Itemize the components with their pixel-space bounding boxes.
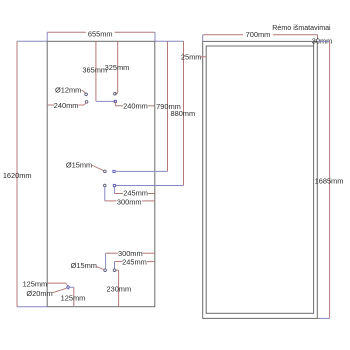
svg-text:245mm: 245mm [123, 189, 148, 198]
wire: extension line bottom-left (door bottom to 1620 dim) [17, 306, 47, 308]
hole top-left [85, 93, 88, 96]
svg-text:Ø15mm: Ø15mm [66, 161, 92, 170]
svg-text:655mm: 655mm [88, 29, 113, 38]
hole mid-right [114, 100, 116, 102]
wire: ext 300 lower to hole [105, 253, 107, 269]
wire: ext from 365 dim to hole [96, 100, 115, 102]
wire: ext frame top right to 1685 dim [317, 40, 329, 42]
hole row3 right [113, 269, 116, 272]
dimension 240mm left [47, 104, 54, 106]
svg-text:365mm: 365mm [82, 66, 107, 75]
dimension 125mm top (from left edge to Ø20 hole) [47, 282, 66, 284]
frame inner-right stub [313, 41, 315, 46]
svg-text:Ø15mm: Ø15mm [71, 261, 97, 270]
svg-text:1620mm: 1620mm [3, 171, 32, 180]
svg-text:300mm: 300mm [117, 198, 142, 207]
svg-text:245mm: 245mm [122, 257, 147, 266]
hole top-right [114, 92, 117, 95]
svg-text:700mm: 700mm [246, 30, 271, 39]
svg-text:Ø20mm: Ø20mm [26, 289, 52, 298]
tick right 655 [154, 32, 156, 41]
svg-text:240mm: 240mm [123, 102, 148, 111]
dimension 365mm vertical [95, 41, 97, 101]
wire: ext 245 lower to hole [114, 262, 116, 269]
wire: ext row2 to 880 dim [116, 185, 184, 187]
leader Ø15mm upper [91, 165, 104, 171]
tick left 700 [202, 35, 204, 42]
dimension 1620mm vertical line [16, 41, 18, 306]
svg-text:230mm: 230mm [106, 284, 131, 293]
dimension 655mm line [47, 31, 86, 33]
dimension 790mm vertical [167, 41, 169, 171]
hole mid-left [85, 101, 88, 104]
hole row3 left [104, 269, 107, 272]
svg-text:Rėmo išmatavimai: Rėmo išmatavimai [272, 24, 331, 32]
hole handle row1 left [104, 170, 107, 173]
leader Ø20mm [51, 288, 66, 293]
wire: ext row1 to 790 dim [115, 170, 167, 172]
leader Ø12mm [82, 90, 85, 93]
dimension 700mm [203, 34, 243, 36]
hole Ø20 marker [67, 286, 70, 289]
dimension 1685mm vertical [329, 41, 331, 318]
hole handle row1 right marker [113, 170, 115, 172]
svg-text:240mm: 240mm [54, 101, 79, 110]
hole row2 left [104, 184, 107, 187]
arrow hook 325 to hole [115, 92, 118, 93]
frame inner rect [206, 46, 313, 313]
svg-text:125mm: 125mm [23, 280, 48, 289]
svg-text:Ø12mm: Ø12mm [55, 85, 81, 94]
frame outer rect [203, 41, 318, 318]
door leaf outline [47, 41, 155, 306]
wire: extension line top-left (door top to 1620 dim) [17, 40, 47, 42]
dimension 880mm vertical [183, 41, 185, 185]
dimension 230mm [116, 269, 119, 271]
dimension 300mm lower [106, 252, 118, 254]
dimension 245mm lower [115, 261, 123, 263]
svg-text:325mm: 325mm [105, 63, 130, 72]
svg-text:25mm: 25mm [181, 53, 202, 62]
leader 25mm [200, 56, 207, 58]
wire: ext frame bottom right to 1685 dim [317, 317, 329, 319]
svg-text:125mm: 125mm [61, 293, 86, 302]
svg-text:1685mm: 1685mm [315, 176, 344, 185]
hole row2 right marker [113, 184, 115, 186]
svg-text:880mm: 880mm [170, 109, 195, 118]
tick left 655 [46, 32, 48, 41]
dimension 245mm upper [113, 187, 115, 194]
dimension 300mm upper [104, 187, 106, 201]
wire: ext door top right to 880 dim [155, 40, 184, 42]
leader Ø15mm lower [96, 266, 104, 269]
dimension 240mm right [114, 102, 116, 106]
tick right 700 [317, 35, 319, 40]
dimension 125mm bottom (hole down to door bottom) [68, 286, 74, 288]
dimension 325mm vertical [117, 41, 119, 92]
